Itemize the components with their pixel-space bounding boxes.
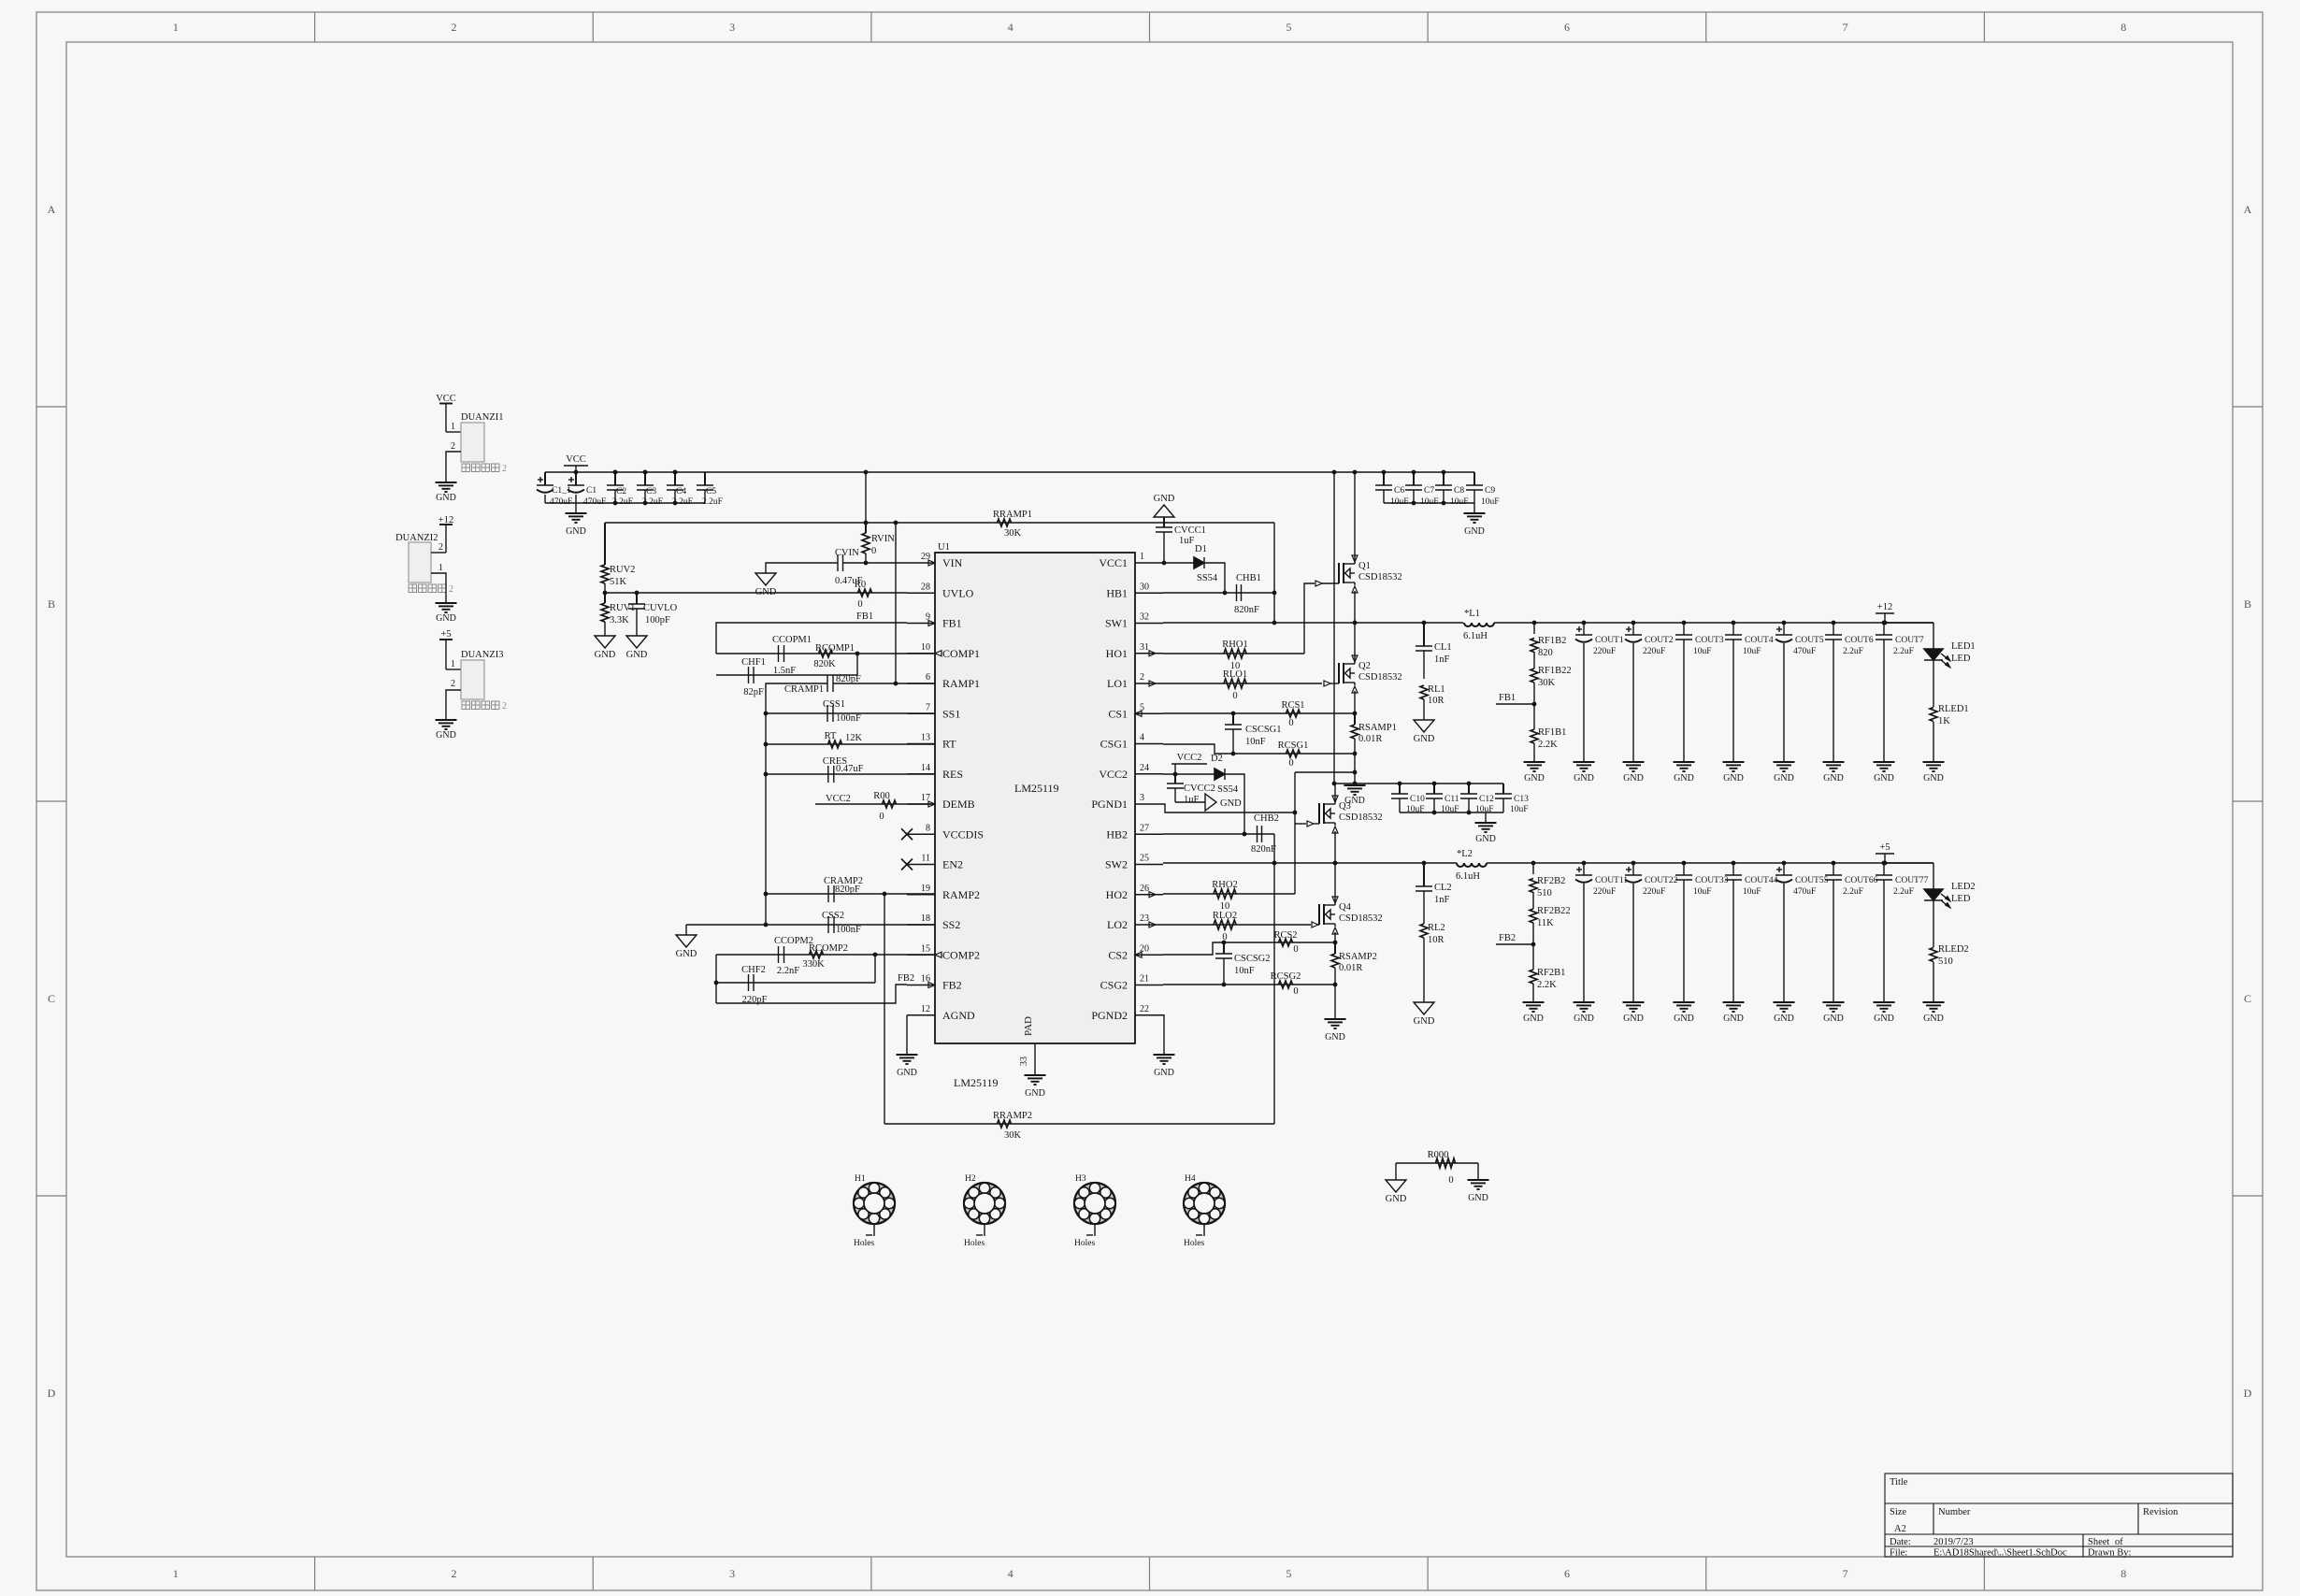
capacitor C2 2.2uF: [614, 472, 616, 485]
wire CHF2 bottom rail: [716, 982, 875, 984]
wire LED1 to RLED1: [1933, 660, 1934, 707]
wire SS2 line: [686, 924, 935, 926]
ground AGND: [897, 1054, 918, 1056]
wire VCC2 line: [1163, 773, 1215, 775]
Q2 source arrow: [1352, 686, 1358, 693]
svg-text:GND: GND: [1220, 798, 1242, 809]
resistor RCOMP2 330K: [810, 951, 824, 958]
svg-text:30K: 30K: [1004, 528, 1022, 539]
pin 4 CSG1: [1135, 743, 1163, 745]
svg-text:0.01R: 0.01R: [1339, 963, 1362, 973]
svg-text:4: 4: [1140, 733, 1144, 743]
wire D2 cathode to HB2: [1225, 774, 1244, 834]
resistor RHO1 10: [1224, 649, 1246, 658]
resistor RCSG1 0: [1287, 750, 1301, 757]
resistor RUV2 51K: [604, 523, 606, 565]
svg-text:10uF: 10uF: [1420, 497, 1439, 507]
resistor RSAMP2 0.01R: [1334, 942, 1336, 954]
junction RAMP1 line: [894, 682, 898, 686]
svg-text:2.2uF: 2.2uF: [1893, 887, 1914, 897]
svg-text:RCSG2: RCSG2: [1271, 971, 1301, 982]
junction Q1 drain rail: [1353, 470, 1358, 475]
svg-text:CSS2: CSS2: [822, 911, 844, 921]
svg-text:GND: GND: [1823, 1014, 1844, 1024]
capacitor C12 10uF: [1468, 784, 1470, 794]
svg-text:LO2: LO2: [1107, 918, 1128, 931]
junction CS2 CSCSG2: [1222, 941, 1227, 945]
label 接线端子2 DUANZI3: [462, 701, 470, 710]
svg-text:COUT4: COUT4: [1745, 636, 1774, 645]
svg-text:A: A: [48, 203, 56, 216]
svg-text:VCC1: VCC1: [1099, 556, 1128, 569]
ground RLED1: [1923, 761, 1945, 763]
connector DUANZI2: [409, 542, 431, 582]
ground RF1B1: [1524, 761, 1545, 763]
svg-text:GND: GND: [1468, 1193, 1488, 1203]
pin 7 SS1: [907, 712, 935, 714]
wire SW1 line: [1163, 622, 1463, 624]
svg-text:2: 2: [451, 1567, 456, 1580]
capacitor CRAMP1 820pF: [827, 675, 828, 692]
junction C11 C12 bottom: [1432, 811, 1437, 815]
pin 18 SS2: [907, 924, 935, 926]
svg-text:GND: GND: [1475, 834, 1496, 844]
svg-text:C11: C11: [1445, 795, 1459, 804]
pin 23 LO2: [1135, 924, 1163, 926]
svg-text:+5: +5: [1879, 842, 1890, 853]
svg-text:CS2: CS2: [1108, 948, 1128, 961]
wire DEMB line: [815, 803, 935, 805]
svg-text:Date:: Date:: [1890, 1537, 1911, 1547]
svg-text:1: 1: [438, 563, 443, 573]
capacitor CRAMP2 820pF: [827, 885, 829, 902]
svg-text:Q1: Q1: [1358, 561, 1371, 571]
junction GND bus: [1332, 782, 1337, 786]
svg-text:470uF: 470uF: [1793, 647, 1816, 656]
Q3 gate wire: [1295, 823, 1306, 825]
svg-text:VCC: VCC: [566, 454, 586, 465]
wire VIN rail to Q3 drain: [1333, 472, 1335, 784]
svg-text:RSAMP2: RSAMP2: [1339, 952, 1377, 962]
capacitor CVIN 0.47uF: [837, 554, 839, 571]
svg-text:Q2: Q2: [1358, 661, 1371, 671]
svg-text:1K: 1K: [1938, 716, 1950, 726]
ground SS2: [676, 935, 697, 947]
capacitor CL2 1nF: [1423, 863, 1425, 886]
junction D2 HB2: [1243, 832, 1247, 837]
svg-text:RT: RT: [825, 731, 837, 741]
junction Q3 source SW2: [1333, 861, 1338, 866]
transistor Q1 CSD18532: [1338, 563, 1340, 583]
wire Q1 source to SW1: [1354, 591, 1356, 623]
wire PGND2 to ground: [1163, 1015, 1164, 1055]
resistor RCOMP1 820K: [819, 650, 833, 657]
svg-text:6: 6: [1564, 21, 1570, 34]
svg-text:32: 32: [1140, 612, 1149, 623]
svg-text:Revision: Revision: [2143, 1507, 2178, 1517]
wire DUANZI2 pin1 to ground: [431, 573, 446, 603]
Q2 drain arrow: [1352, 655, 1358, 662]
svg-text:4: 4: [1008, 1567, 1013, 1580]
svg-text:8: 8: [2120, 21, 2126, 34]
wire RT line: [766, 743, 935, 745]
svg-text:2.2nF: 2.2nF: [777, 966, 799, 976]
svg-text:LED: LED: [1951, 894, 1971, 904]
capacitor C6 10uF: [1383, 472, 1385, 485]
svg-text:2: 2: [502, 701, 507, 712]
svg-text:0: 0: [879, 812, 884, 822]
resistor R0 0: [858, 589, 872, 597]
svg-text:SW2: SW2: [1105, 858, 1128, 871]
svg-text:1: 1: [173, 21, 179, 34]
svg-text:0: 0: [871, 546, 876, 556]
resistor RRAMP1 30K: [998, 519, 1012, 526]
svg-text:820nF: 820nF: [1234, 605, 1259, 615]
pin 14 RES: [907, 773, 935, 775]
svg-text:GND: GND: [1025, 1088, 1045, 1099]
resistor RLED2 510: [1930, 948, 1937, 962]
capacitor CHB1 820nF: [1236, 584, 1238, 601]
pin 19 RAMP2: [907, 894, 935, 896]
pin 1 VCC1: [1135, 562, 1163, 564]
ground COUT4: [1723, 761, 1745, 763]
wire AGND to ground: [906, 1015, 908, 1055]
junction PGND1 vert: [1293, 811, 1298, 815]
svg-text:11K: 11K: [1537, 918, 1554, 928]
wire Q4 source to CS2: [1334, 932, 1336, 942]
svg-text:12: 12: [921, 1004, 930, 1014]
svg-text:GND: GND: [1774, 1014, 1794, 1024]
ground R000 right: [1468, 1179, 1489, 1181]
svg-text:VCCDIS: VCCDIS: [942, 827, 984, 841]
svg-text:Drawn By:: Drawn By:: [2088, 1548, 2131, 1559]
svg-text:14: 14: [921, 763, 930, 773]
junction C11 top bus: [1432, 782, 1437, 786]
ground R000 left: [1386, 1180, 1406, 1192]
svg-text:CUVLO: CUVLO: [643, 603, 678, 613]
junction RVIN top: [864, 521, 869, 525]
resistor divider RF1B2 820: [1532, 621, 1537, 625]
wire GND bus y838: [1334, 783, 1503, 784]
wire FB2 return: [716, 985, 907, 1003]
pin 13 RT: [907, 743, 935, 745]
svg-text:CCOPM1: CCOPM1: [772, 635, 812, 645]
svg-text:10R: 10R: [1428, 696, 1445, 706]
svg-text:6: 6: [926, 672, 930, 683]
resistor RHO2 10: [1214, 889, 1236, 899]
svg-text:GND: GND: [1674, 1014, 1694, 1024]
junction D1 HB1: [1223, 591, 1228, 596]
capacitor C9 10uF: [1473, 472, 1475, 485]
svg-text:10R: 10R: [1428, 935, 1445, 945]
svg-text:COUT66: COUT66: [1845, 876, 1878, 885]
capacitor CSS1 100nF: [827, 705, 828, 722]
ic U1 LM25119 body: [935, 553, 1135, 1043]
wire SS1 line: [766, 712, 935, 714]
junction C7 rail: [1412, 470, 1416, 475]
wire Q3 drain: [1334, 784, 1336, 801]
svg-text:23: 23: [1140, 913, 1149, 924]
svg-text:10nF: 10nF: [1234, 966, 1255, 976]
svg-text:13: 13: [921, 733, 930, 743]
svg-text:GND: GND: [436, 613, 456, 624]
svg-text:D2: D2: [1211, 754, 1223, 764]
pin 30 HB1: [1135, 592, 1163, 594]
svg-text:0: 0: [1288, 758, 1293, 769]
svg-text:470uF: 470uF: [550, 497, 572, 507]
pin 11 EN2: [907, 864, 935, 866]
svg-text:C12: C12: [1479, 795, 1494, 804]
svg-text:12K: 12K: [845, 733, 863, 743]
wire LO1 line: [1163, 683, 1322, 684]
svg-text:GND: GND: [1464, 526, 1485, 537]
svg-text:CSD18532: CSD18532: [1339, 913, 1383, 924]
svg-text:EN2: EN2: [942, 858, 963, 871]
pin 9 FB1: [907, 623, 935, 625]
svg-text:+12: +12: [1877, 602, 1892, 612]
svg-text:PAD: PAD: [1023, 1016, 1034, 1036]
svg-text:COUT33: COUT33: [1695, 876, 1729, 885]
svg-text:820: 820: [1538, 648, 1553, 658]
resistor RF2B1 2.2K: [1530, 970, 1537, 984]
svg-text:2: 2: [451, 441, 455, 452]
ground CVCC2 (right): [1205, 794, 1216, 811]
svg-text:COUT77: COUT77: [1895, 876, 1929, 885]
frame column tick 1 top: [314, 12, 316, 42]
capacitor C13 10uF: [1502, 784, 1504, 794]
wire COMP2 loop right vert: [874, 955, 876, 983]
wire UVLO line: [605, 592, 907, 594]
svg-text:220uF: 220uF: [1593, 887, 1616, 897]
ground COUT33: [1674, 1001, 1695, 1003]
svg-text:GND: GND: [1414, 734, 1435, 744]
junction C3 bottom: [643, 501, 648, 506]
pin 31 HO1: [1135, 653, 1163, 654]
wire Q3 source to SW2: [1334, 831, 1336, 863]
wire DUANZI3 pin1: [446, 669, 461, 670]
junction RRAMP2 vert: [883, 892, 887, 897]
wire CS1 line: [1163, 712, 1355, 714]
svg-text:82pF: 82pF: [743, 687, 764, 697]
svg-text:RF2B2: RF2B2: [1537, 876, 1565, 886]
capacitor CCOPM2 2.2nF: [778, 946, 780, 963]
pin 8 VCCDIS: [907, 833, 935, 835]
pin 27 HB2: [1135, 833, 1163, 835]
wire FB1 loop: [716, 623, 907, 654]
resistor RL1 10R: [1420, 685, 1428, 699]
svg-text:RHO1: RHO1: [1222, 640, 1247, 650]
junction VCC stub: [574, 470, 579, 475]
ground DUANZI1: [436, 482, 457, 483]
Q4 source arrow: [1332, 927, 1338, 934]
svg-text:GND: GND: [1523, 1014, 1544, 1024]
svg-text:VCC2: VCC2: [826, 794, 851, 804]
frame row tick 3 right: [2233, 1195, 2263, 1197]
junction RUV1 top: [603, 591, 608, 596]
junction CL2 top: [1422, 861, 1427, 866]
wire RRAMP1 to RAMP1 pin: [895, 523, 897, 683]
wire RSAMP2 to ground: [1334, 985, 1336, 1019]
svg-text:Holes: Holes: [964, 1239, 985, 1248]
ground DUANZI2: [436, 602, 457, 604]
frame row tick 2 right: [2233, 800, 2263, 802]
frame column tick 2 bottom: [592, 1557, 594, 1590]
capacitor COUT11 220uF: [1582, 861, 1587, 866]
diode D1 SS54: [1194, 557, 1204, 568]
svg-text:B: B: [2244, 597, 2251, 611]
svg-text:GND: GND: [626, 650, 648, 660]
wire COMP1 loop right vert: [856, 654, 858, 675]
svg-text:VIN: VIN: [942, 556, 963, 569]
junction CS1 CSCSG1: [1231, 712, 1236, 716]
junction SW2 vert: [1272, 861, 1277, 866]
wire cap bank bottom rail: [545, 502, 705, 504]
svg-text:RLO2: RLO2: [1213, 911, 1237, 921]
wire CVCC2 to ground: [1175, 801, 1205, 803]
svg-text:Q4: Q4: [1339, 902, 1352, 913]
svg-text:C8: C8: [1454, 486, 1464, 496]
junction FB1 divider: [1532, 702, 1537, 707]
ground COUT44: [1723, 1001, 1745, 1003]
svg-text:GND: GND: [1923, 773, 1944, 784]
capacitor CCOPM1 1.5nF: [778, 645, 780, 662]
svg-text:5: 5: [1286, 21, 1291, 34]
svg-text:0.47uF: 0.47uF: [835, 576, 863, 586]
capacitor C7 10uF: [1413, 472, 1415, 485]
junction RT: [764, 742, 769, 747]
svg-text:HO1: HO1: [1106, 647, 1128, 660]
mounting hole H3: [1074, 1183, 1115, 1224]
capacitor COUT1 220uF: [1582, 621, 1587, 625]
svg-text:GND: GND: [1674, 773, 1694, 784]
label 接线端子2 DUANZI1: [462, 464, 470, 472]
junction RRAMP1 vert top: [894, 521, 898, 525]
svg-text:28: 28: [921, 582, 930, 592]
svg-text:470uF: 470uF: [1793, 887, 1816, 897]
frame column tick 5 bottom: [1427, 1557, 1429, 1590]
svg-text:CVIN: CVIN: [835, 548, 859, 558]
svg-text:0: 0: [1293, 986, 1298, 997]
svg-text:GND: GND: [1154, 1068, 1174, 1078]
junction CS1 RSAMP1: [1353, 712, 1358, 716]
svg-text:FB2: FB2: [942, 979, 962, 992]
pin 10 COMP1: [907, 653, 935, 654]
svg-text:GND: GND: [676, 949, 697, 959]
svg-text:A2: A2: [1894, 1524, 1906, 1534]
pin 6 RAMP1: [907, 683, 935, 684]
capacitor COUT22 220uF: [1632, 861, 1636, 866]
svg-text:HB2: HB2: [1106, 827, 1128, 841]
svg-text:GND: GND: [1574, 1014, 1594, 1024]
capacitor C10 10uF: [1399, 784, 1401, 794]
svg-text:CHB2: CHB2: [1254, 813, 1279, 824]
wire VIN sense line y559: [605, 522, 1274, 524]
ground CVCC1 (up): [1154, 505, 1174, 517]
svg-text:H4: H4: [1185, 1174, 1196, 1184]
svg-text:CSD18532: CSD18532: [1358, 572, 1402, 582]
svg-text:26: 26: [1140, 884, 1149, 894]
svg-text:GND: GND: [1774, 773, 1794, 784]
svg-text:820pF: 820pF: [836, 674, 861, 684]
title block: [1885, 1474, 2233, 1557]
wire SW2 line: [1163, 862, 1457, 864]
wire DUANZI3 pin2 to ground: [446, 690, 461, 720]
resistor RF1B22 30K: [1531, 669, 1538, 683]
led LED2: [1924, 889, 1943, 900]
ground CUVLO: [626, 636, 647, 648]
junction C12 top bus: [1467, 782, 1472, 786]
ground COUT66: [1823, 1001, 1845, 1003]
Q3 gate arrow: [1307, 821, 1314, 827]
svg-text:1nF: 1nF: [1434, 654, 1450, 665]
junction SS2 end: [764, 923, 769, 927]
Q3 drain arrow: [1332, 796, 1338, 802]
svg-text:GND: GND: [1623, 773, 1644, 784]
junction C7 C8 bottom: [1412, 501, 1416, 506]
resistor divider RF2B2 510: [1531, 861, 1536, 866]
wire VCC rail to RVIN: [865, 472, 867, 523]
capacitor C3 2.2uF: [644, 472, 646, 485]
resistor RF2B22 11K: [1530, 909, 1537, 923]
junction C3 top: [643, 470, 648, 475]
svg-text:7: 7: [1843, 1567, 1848, 1580]
svg-text:RCS1: RCS1: [1281, 700, 1304, 711]
junction C8 rail: [1442, 470, 1446, 475]
svg-text:C: C: [2244, 992, 2251, 1005]
svg-text:Size: Size: [1890, 1507, 1906, 1517]
wire RRAMP2 left vert: [884, 894, 885, 1124]
svg-text:8: 8: [2120, 1567, 2126, 1580]
svg-text:RHO2: RHO2: [1212, 880, 1237, 890]
svg-text:220uF: 220uF: [1643, 887, 1665, 897]
ground VCC cap bank: [575, 503, 577, 513]
transistor Q3 CSD18532: [1318, 803, 1320, 824]
svg-text:GND: GND: [1823, 773, 1844, 784]
svg-text:24: 24: [1140, 763, 1149, 773]
ground COUT2: [1623, 761, 1645, 763]
resistor RLO2 0: [1214, 920, 1236, 929]
svg-text:SW1: SW1: [1105, 617, 1128, 630]
svg-text:2: 2: [449, 584, 453, 595]
svg-text:6.1uH: 6.1uH: [1456, 871, 1480, 882]
svg-text:LED: LED: [1951, 654, 1971, 664]
svg-text:1: 1: [451, 659, 455, 669]
junction COMP1 right vert: [855, 652, 860, 656]
capacitor C8 10uF: [1443, 472, 1445, 485]
resistor RCSG2 0: [1279, 981, 1293, 988]
ground COUT1: [1574, 761, 1595, 763]
svg-text:10uF: 10uF: [1450, 497, 1469, 507]
svg-text:B: B: [48, 597, 55, 611]
svg-text:10uF: 10uF: [1481, 497, 1500, 507]
Q4 drain arrow: [1332, 897, 1338, 903]
svg-text:RCS2: RCS2: [1273, 930, 1297, 941]
frame column tick 3 top: [870, 12, 872, 42]
capacitor C1 470uF: [575, 472, 577, 485]
wire SW1 rail to LED1: [1933, 623, 1934, 649]
junction +5: [1883, 861, 1888, 866]
frame row tick 3 left: [36, 1195, 66, 1197]
svg-text:100nF: 100nF: [836, 713, 861, 724]
transistor Q4 CSD18532: [1318, 904, 1320, 925]
svg-text:File:: File:: [1890, 1548, 1907, 1559]
ground RSAMP2: [1325, 1018, 1346, 1020]
svg-text:COUT1: COUT1: [1595, 636, 1624, 645]
svg-text:SS54: SS54: [1217, 784, 1239, 795]
wire RRAMP2 line: [884, 1123, 1274, 1125]
svg-text:2.2K: 2.2K: [1537, 980, 1557, 990]
ground PGND2: [1154, 1054, 1175, 1056]
